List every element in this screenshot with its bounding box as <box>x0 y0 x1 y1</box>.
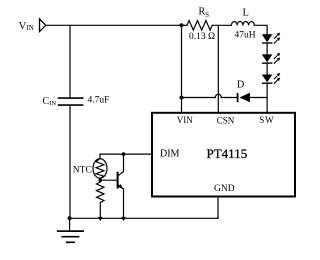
junction dot C <box>122 152 126 156</box>
svg-text:SW: SW <box>259 115 274 125</box>
op IC PT4115 box <box>152 113 295 197</box>
junction dot E <box>68 216 72 220</box>
wire CIN vertical upper <box>69 25 71 97</box>
resistor below NTC <box>97 178 105 216</box>
ground symbol <box>57 231 84 242</box>
wire DIM line <box>100 153 152 155</box>
svg-text:4.7uF: 4.7uF <box>88 96 110 106</box>
LED1 <box>262 33 280 44</box>
wire hop to diode bar <box>221 97 237 99</box>
wire top rail L to LED column corner <box>254 25 267 34</box>
wire top rail Rs to L <box>212 24 231 26</box>
thermistor NTC ellipse <box>93 159 107 179</box>
diode D triangle <box>239 93 250 102</box>
wire bottom rail <box>70 217 218 219</box>
junction dot D <box>99 178 103 182</box>
wire collector <box>118 154 124 176</box>
wire top rail from input triangle to Rs <box>46 24 187 26</box>
LED2 <box>262 53 280 64</box>
wire CIN vertical lower <box>69 106 71 219</box>
LED3 <box>262 73 280 84</box>
input port triangle VIN <box>40 19 46 32</box>
rail arrowhead resistor <box>98 217 102 221</box>
wire LED column segments <box>266 43 268 54</box>
inductor L <box>231 22 254 26</box>
transistor Q1 emitter diagonal <box>118 184 124 189</box>
svg-text:D: D <box>237 79 245 90</box>
junction dot A <box>180 23 184 27</box>
junction dot B <box>180 96 184 100</box>
ground stub <box>69 218 71 231</box>
svg-text:NTC: NTC <box>73 165 92 175</box>
wire hop over CSN <box>215 94 221 97</box>
wire VIN vertical <box>181 25 183 113</box>
svg-text:DIM: DIM <box>160 148 180 159</box>
wire base <box>100 179 118 181</box>
transistor Q1 emitter arrowhead <box>118 184 123 189</box>
svg-text:47uH: 47uH <box>235 31 256 41</box>
wire NTC top stub <box>99 154 101 159</box>
thermistor NTC zigzag <box>96 159 104 179</box>
svg-text:GND: GND <box>214 184 235 194</box>
svg-text:PT4115: PT4115 <box>207 146 248 161</box>
svg-text:CSN: CSN <box>217 116 235 126</box>
wire CSN vertical <box>217 25 219 113</box>
rail arrowhead emitter <box>121 217 125 221</box>
svg-text:L: L <box>243 8 249 19</box>
capacitor CIN plates <box>58 97 84 99</box>
wire GND pin <box>217 197 219 219</box>
wire emitter vertical <box>123 189 125 217</box>
diode D bar <box>237 93 239 102</box>
wire diode to LED column <box>250 97 267 99</box>
resistor Rs <box>187 21 212 31</box>
transistor Q1 base bar <box>117 172 119 189</box>
svg-text:0.13 Ω: 0.13 Ω <box>189 32 215 42</box>
svg-text:VIN: VIN <box>177 115 193 125</box>
wire diode line left <box>182 97 216 99</box>
